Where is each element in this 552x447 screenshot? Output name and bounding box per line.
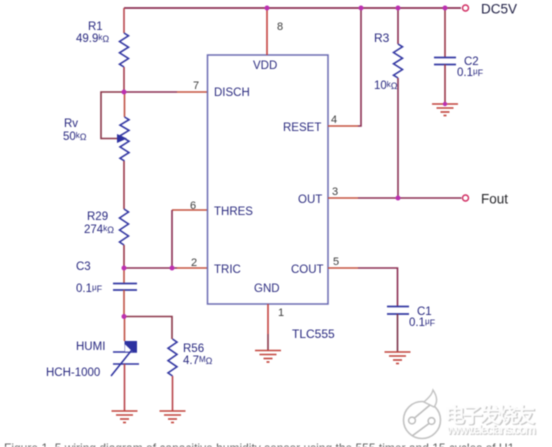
- wire top power rail: [124, 7, 461, 9]
- svg-text:R29: R29: [87, 211, 108, 223]
- svg-text:3: 3: [332, 186, 338, 198]
- ground pin 1: [255, 351, 281, 363]
- svg-text:49.9kΩ: 49.9kΩ: [76, 33, 109, 45]
- svg-text:www.elecfans.com: www.elecfans.com: [446, 423, 536, 437]
- svg-text:7: 7: [193, 80, 199, 92]
- wire C2 top lead: [444, 8, 446, 57]
- svg-text:R1: R1: [88, 21, 103, 33]
- svg-text:0.1μF: 0.1μF: [457, 67, 484, 79]
- svg-text:COUT: COUT: [291, 264, 324, 276]
- wire OUT net to Fout: [358, 197, 462, 199]
- svg-text:0.1μF: 0.1μF: [76, 283, 103, 295]
- terminal Fout: [463, 195, 469, 201]
- wire HUMI to ground: [124, 364, 126, 411]
- svg-text:R56: R56: [183, 343, 204, 355]
- wire R56 to ground: [172, 376, 174, 411]
- svg-text:GND: GND: [254, 283, 280, 295]
- node junction R3 rail: [396, 6, 401, 11]
- pin 7 stub: [177, 91, 208, 93]
- svg-text:274kΩ: 274kΩ: [84, 224, 114, 236]
- svg-text:4.7MΩ: 4.7MΩ: [183, 355, 213, 367]
- svg-text:Figure 1. 5 wiring diagram of: Figure 1. 5 wiring diagram of capacitive…: [4, 441, 515, 447]
- svg-text:TLC555: TLC555: [292, 327, 335, 341]
- node junction THRES-TRIC: [170, 266, 175, 271]
- pin 5 stub: [328, 267, 358, 269]
- capacitor C1: [387, 306, 409, 308]
- watermark logo circle: [404, 390, 441, 439]
- node junction C2 rail: [443, 6, 448, 11]
- wire DISCH net: [124, 91, 177, 93]
- wire pin1 to ground: [267, 334, 269, 350]
- svg-text:1: 1: [278, 307, 284, 319]
- wire R3 top lead: [397, 8, 399, 44]
- wire R29 to node B: [123, 245, 125, 268]
- wire R3 to OUT net: [397, 78, 399, 198]
- svg-text:DC5V: DC5V: [481, 2, 517, 17]
- node junction OUT-R3: [396, 196, 401, 201]
- potentiometer Rv wiper arrow: [117, 134, 127, 143]
- op-amp U1 TLC555 body: [208, 55, 329, 304]
- wire node A to Rv: [124, 92, 126, 117]
- capacitor C2: [434, 57, 456, 59]
- wire THRES to TRIC: [171, 210, 173, 268]
- wire Rv to R29: [123, 161, 125, 209]
- svg-text:HUMI: HUMI: [76, 341, 105, 353]
- node C junction: [122, 314, 127, 319]
- svg-text:Fout: Fout: [481, 192, 508, 207]
- svg-text:THRES: THRES: [214, 206, 253, 218]
- resistor R1: [120, 33, 129, 67]
- node junction reset rail: [359, 6, 364, 11]
- node B junction: [122, 266, 127, 271]
- ground under R56: [160, 411, 186, 423]
- node A junction: [122, 90, 127, 95]
- pin 8 stub: [266, 10, 268, 55]
- potentiometer Rv: [120, 117, 129, 139]
- wire C1 to ground: [397, 314, 399, 352]
- svg-text:0.1μF: 0.1μF: [409, 317, 436, 329]
- pin 1 stub: [267, 304, 269, 334]
- resistor R56: [168, 339, 177, 376]
- svg-text:2: 2: [191, 257, 197, 269]
- svg-text:C3: C3: [76, 261, 91, 273]
- ground under C2: [432, 104, 458, 116]
- wire COUT net to C1: [358, 268, 398, 306]
- pin 3 stub: [328, 197, 358, 199]
- watermark brand text: [445, 403, 537, 438]
- wire node C branch to R56: [124, 317, 172, 340]
- svg-text:5: 5: [333, 256, 339, 268]
- svg-text:6: 6: [190, 200, 196, 212]
- node junction C2 ground: [443, 102, 447, 106]
- svg-text:DISCH: DISCH: [214, 87, 250, 99]
- svg-text:Rv: Rv: [64, 118, 78, 130]
- wire TRIC net: [124, 267, 177, 269]
- terminal DC5V: [463, 5, 469, 11]
- sensor HUMI HCH-1000: [111, 341, 139, 376]
- resistor R29: [120, 209, 129, 245]
- svg-text:10kΩ: 10kΩ: [374, 80, 398, 92]
- capacitor C3: [113, 283, 137, 285]
- pin 6 stub: [172, 209, 208, 211]
- wire R1 bottom to node A: [123, 67, 125, 92]
- wire rheostat wiper loop: [101, 92, 124, 139]
- wire node C to HUMI: [124, 316, 126, 341]
- ground under C1: [385, 352, 411, 364]
- svg-text:TRIC: TRIC: [214, 264, 241, 276]
- svg-text:8: 8: [277, 21, 283, 33]
- svg-text:RESET: RESET: [283, 122, 321, 134]
- wire C2 to ground: [444, 65, 446, 105]
- svg-text:50kΩ: 50kΩ: [63, 131, 87, 143]
- wire R1 top lead: [123, 8, 125, 33]
- wire C3 to node C: [123, 290, 125, 316]
- svg-text:OUT: OUT: [298, 194, 322, 206]
- svg-text:HCH-1000: HCH-1000: [46, 367, 100, 379]
- wire node B to C3: [123, 268, 125, 284]
- svg-text:VDD: VDD: [253, 60, 277, 72]
- pin 2 stub: [177, 267, 208, 269]
- resistor R3: [394, 44, 403, 78]
- node junction pin8 rail: [265, 6, 270, 11]
- ground under HUMI: [112, 411, 138, 423]
- svg-text:R3: R3: [374, 31, 390, 45]
- pin 4 stub: [328, 125, 358, 127]
- wire RESET net: [358, 8, 361, 126]
- svg-text:4: 4: [331, 114, 337, 126]
